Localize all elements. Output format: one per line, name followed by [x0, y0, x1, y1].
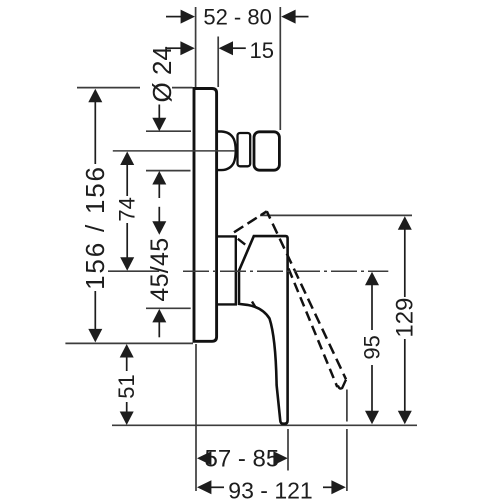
dimension 156/156 line and arrows: [94, 100, 96, 164]
dimension 57-85: [197, 451, 211, 465]
spout block: [254, 132, 279, 170]
svg-text:52 - 80: 52 - 80: [203, 4, 272, 29]
dimension 129 line and arrows: [404, 228, 406, 297]
svg-text:51: 51: [114, 374, 139, 398]
dimension 45/45 top arrow: [152, 221, 166, 235]
dimension 45/45 bottom extension line: [146, 307, 191, 309]
handle lever dashed position: tip: [338, 380, 346, 389]
dimension 52-80: [166, 16, 309, 18]
svg-text:74: 74: [115, 197, 140, 221]
handle lever solid: [239, 236, 288, 424]
svg-text:95: 95: [360, 335, 385, 359]
dimension 74 bottom extension line: [108, 270, 159, 272]
handle lever dashed position: small dash near base: [238, 239, 245, 245]
wire extension line y215 for 129: [260, 214, 412, 216]
wire extension line x218 for 15: [217, 37, 219, 88]
wire wall extension line bottom: [195, 344, 197, 491]
svg-text:15: 15: [250, 38, 274, 63]
handle lever dashed position: top edge: [234, 211, 267, 232]
svg-text:129: 129: [391, 298, 418, 338]
dimension 45/45 bottom arrow: [152, 309, 166, 323]
dimension 15: [167, 47, 246, 49]
handle lever dashed position: inner edge: [289, 269, 338, 388]
wire extension line x280 for 52-80: [279, 7, 281, 130]
dimension O24 arrows: [158, 105, 160, 119]
svg-text:93 - 121: 93 - 121: [228, 477, 312, 500]
wire pivot centerline: [183, 270, 388, 272]
dimension O24 extension lines: [146, 130, 191, 132]
dimension 51 line and arrows: [126, 356, 128, 371]
dimension 95 line and arrows: [371, 284, 373, 330]
svg-text:57 - 85: 57 - 85: [205, 445, 280, 472]
spout cone: [218, 132, 236, 171]
wire bottom reference line y425: [112, 424, 417, 426]
dimension 156/156 bottom extension line: [65, 342, 193, 344]
dimension 74 line and arrows: [126, 164, 128, 196]
handle base: [218, 236, 236, 304]
dimension 156/156 top extension line: [77, 87, 140, 89]
wire extension line x288 handle tip: [287, 429, 289, 471]
escutcheon plate: [194, 89, 217, 342]
handle lever dashed position: small dash at base bottom: [252, 302, 256, 308]
wire spout centerline: [113, 150, 235, 152]
dimension 93-121: [211, 486, 224, 488]
svg-text:Ø 24: Ø 24: [147, 46, 177, 102]
svg-text:156 / 156: 156 / 156: [80, 165, 110, 290]
wire extension line x346 dashed-handle tip: [346, 390, 348, 422]
handle lever dashed position: outer edge: [267, 211, 346, 379]
spout collar: [238, 133, 251, 166]
wire wall extension line top: [195, 7, 197, 88]
svg-text:45/45: 45/45: [146, 238, 174, 302]
